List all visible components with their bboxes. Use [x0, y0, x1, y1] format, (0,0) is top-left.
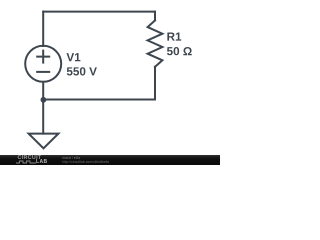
label 50 ohm — [167, 47, 192, 55]
footer credit text line 1 — [63, 156, 81, 160]
footer url line 2 — [63, 160, 110, 164]
wire V1 bottom to node — [42, 82, 44, 100]
wire node to ground — [42, 100, 44, 134]
voltage source V1 circle — [25, 46, 61, 82]
wire bottom horizontal — [43, 99, 155, 101]
label R1 — [167, 33, 181, 41]
wire right vertical resistor bottom lead — [154, 67, 156, 100]
footer bar — [0, 155, 220, 165]
footer CircuitLab logo waveform — [16, 160, 36, 164]
V1 minus sign — [37, 71, 49, 73]
wire top horizontal — [43, 11, 155, 13]
ground symbol triangle — [29, 134, 59, 149]
resistor R1 zigzag body — [148, 20, 163, 66]
wire left vertical to V1 top — [42, 12, 44, 46]
V1 plus sign — [37, 51, 49, 63]
footer CircuitLab logo text CIRCUIT — [18, 156, 42, 161]
wire right vertical resistor top lead — [154, 12, 156, 21]
node junction dot — [41, 97, 47, 103]
label V1 — [66, 53, 80, 61]
footer CircuitLab logo text LAB — [36, 159, 47, 165]
label 550 V — [67, 67, 97, 75]
